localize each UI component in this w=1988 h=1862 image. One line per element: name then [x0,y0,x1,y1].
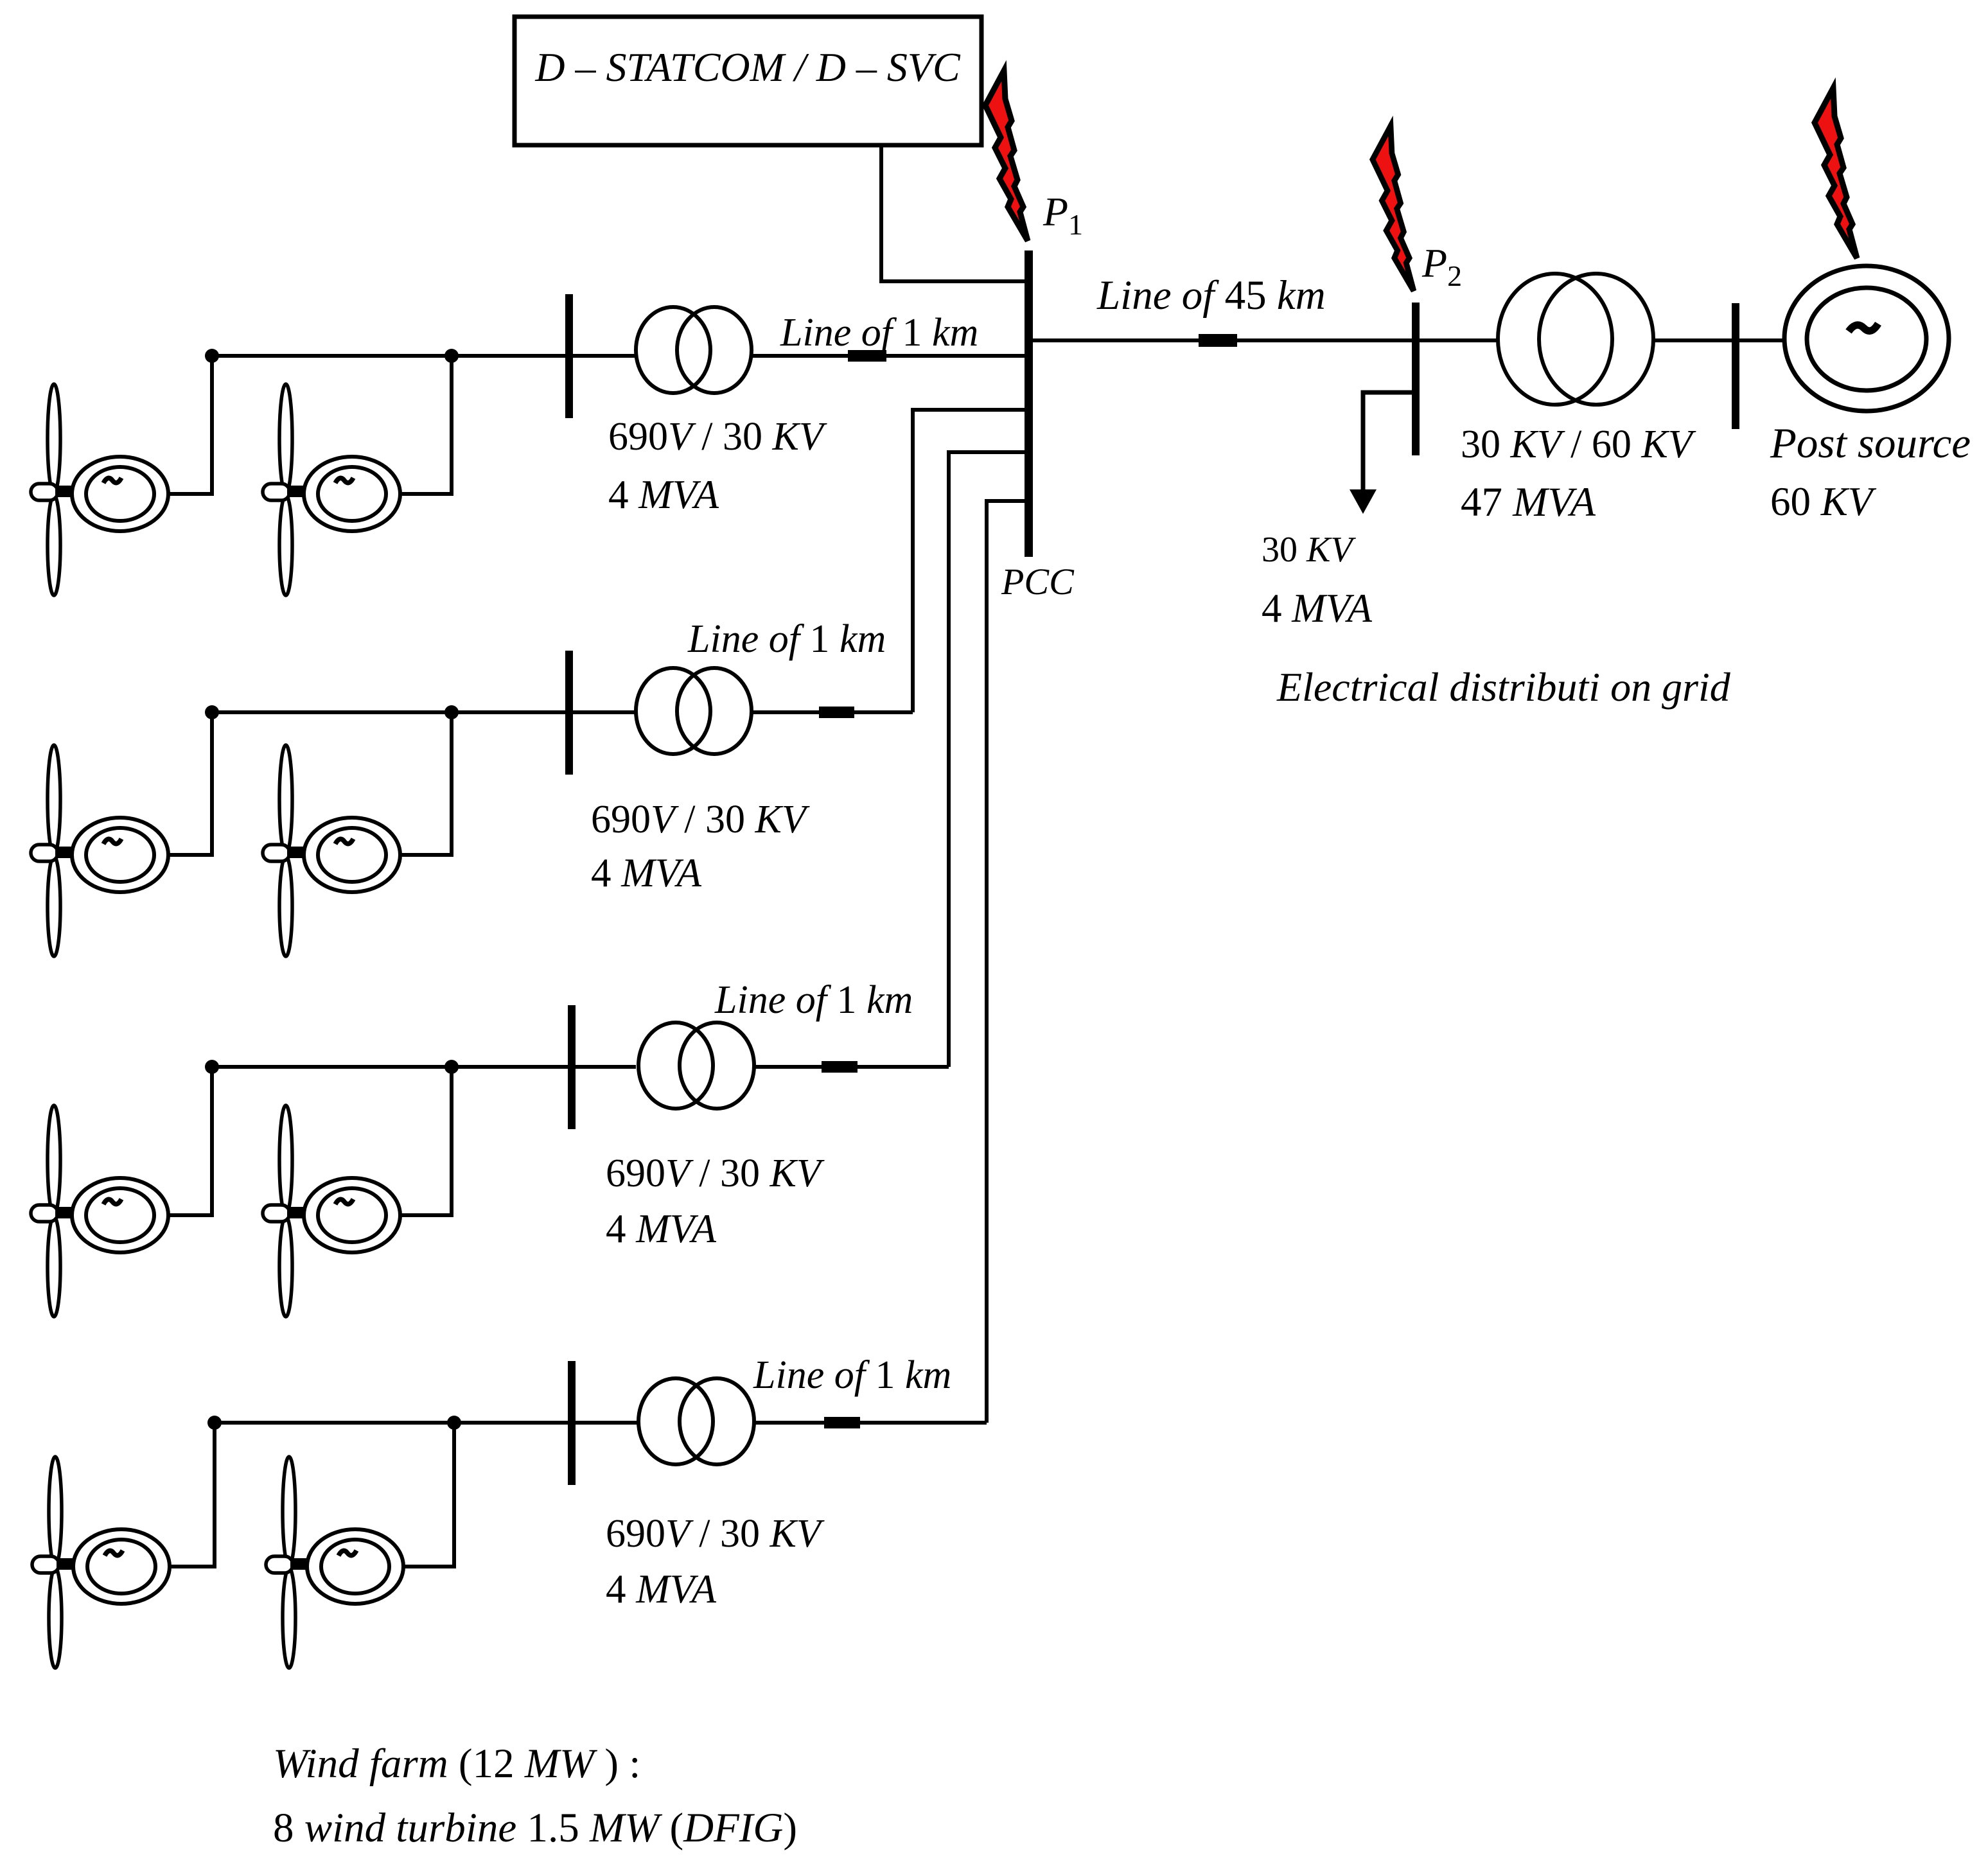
wire WT6 row3 to collector [400,1067,452,1215]
collector wire row4 [215,1421,638,1425]
wind turbine WT1 row1 [31,384,168,595]
D-STATCOM / D-SVC box [515,17,981,145]
wire row3 transformer to riser [754,1065,949,1069]
busbar row3 [568,1005,576,1129]
busbar row2 [565,651,573,775]
wire WT7 row4 to collector [170,1423,215,1567]
svg-text:PCC: PCC [1001,561,1075,602]
collector wire row3 [212,1065,636,1069]
transformer T3 690V/30KV [638,1023,754,1109]
svg-text:30 KV / 60 KV: 30 KV / 60 KV [1461,423,1696,466]
wind turbine WT6 row3 [263,1105,400,1317]
svg-text:Line of 1 km: Line of 1 km [780,311,978,355]
busbar row1 [565,294,573,418]
svg-text:Electrical distributi on grid: Electrical distributi on grid [1276,664,1731,710]
svg-text:Post source: Post source [1770,419,1971,467]
collector wire row2 [212,710,636,714]
transformer T1 690V/30KV [636,307,752,393]
riser wire row2 to PCC [913,410,1025,712]
line segment marker 45 km [1199,334,1237,347]
wind turbine WT4 row2 [263,745,400,956]
svg-text:D – STATCOM / D – SVC: D – STATCOM / D – SVC [534,44,961,90]
junction node row4 a [207,1416,222,1430]
collector wire row1 [212,354,636,358]
svg-text:60 KV: 60 KV [1770,479,1877,524]
wire row1 transformer to PCC [752,354,1025,358]
riser wire row3 to PCC [949,452,1025,1067]
junction node row3 a [205,1060,219,1074]
svg-text:Wind farm (12 MW ) :: Wind farm (12 MW ) : [273,1741,640,1787]
svg-text:4 MVA: 4 MVA [608,472,719,517]
wire from D-STATCOM box to PCC bus [881,145,1026,281]
junction node row2 b [444,705,459,719]
load branch wire at P2 [1363,392,1412,489]
junction node row1 a [205,349,219,363]
wire WT2 row1 to collector [400,356,452,494]
line segment marker row3 [822,1061,858,1073]
busbar row4 [568,1361,576,1485]
wire row4 transformer to riser [754,1421,987,1425]
svg-text:4 MVA: 4 MVA [606,1206,717,1251]
svg-text:4 MVA: 4 MVA [591,850,702,895]
svg-text:690V / 30 KV: 690V / 30 KV [608,415,827,459]
wire WT4 row2 to collector [400,712,452,855]
wind turbine WT5 row3 [31,1105,168,1317]
svg-text:30 KV: 30 KV [1262,530,1356,570]
svg-text:690V / 30 KV: 690V / 30 KV [606,1152,825,1195]
svg-text:8 wind turbine 1.5 MW (DFIG): 8 wind turbine 1.5 MW (DFIG) [273,1805,797,1851]
lightning bolt P1 [985,71,1028,241]
wind turbine WT2 row1 [263,384,400,595]
svg-text:4 MVA: 4 MVA [606,1567,717,1612]
wind turbine WT7 row4 [32,1457,170,1668]
wire P2 to grid transformer [1420,338,1499,342]
junction node row2 a [205,705,219,719]
junction node row4 b [447,1416,461,1430]
junction node row1 b [444,349,459,363]
wire WT1 row1 to collector [168,356,212,494]
post source generator G [1784,266,1949,411]
load arrow head [1350,489,1377,514]
lightning bolt P2 [1373,126,1414,291]
lightning bolt at post source [1815,88,1857,258]
svg-text:Line of 1 km: Line of 1 km [687,617,886,661]
wire WT8 row4 to collector [403,1423,454,1567]
busbar B3 [1732,303,1739,429]
wire Line of 45 km from PCC to P2 [1033,338,1412,342]
busbar P2 [1412,303,1420,455]
wire WT5 row3 to collector [168,1067,212,1215]
wind turbine WT8 row4 [266,1457,403,1668]
junction node row3 b [444,1060,459,1074]
svg-text:47 MVA: 47 MVA [1461,479,1596,525]
wire WT3 row2 to collector [168,712,212,855]
svg-text:4 MVA: 4 MVA [1262,586,1373,631]
svg-text:Line of 1 km: Line of 1 km [714,978,913,1022]
wire transformer T5 to busbar B3 [1653,338,1732,342]
transformer T5 30KV/60KV [1498,274,1653,405]
transformer T2 690V/30KV [636,668,752,754]
svg-text:Line of 45 km: Line of 45 km [1096,272,1326,319]
wind turbine WT3 row2 [31,745,168,956]
svg-text:690V / 30 KV: 690V / 30 KV [591,798,810,841]
wire busbar B3 to post source [1739,338,1784,342]
wire row2 transformer to riser [752,710,913,714]
line segment marker row1 [848,350,886,362]
riser wire row4 to PCC [987,501,1025,1423]
line segment marker row4 [824,1417,860,1428]
svg-text:Line of 1 km: Line of 1 km [753,1353,951,1397]
svg-text:690V / 30 KV: 690V / 30 KV [606,1512,825,1556]
line segment marker row2 [819,707,854,718]
busbar PCC (P1 bus) [1025,250,1033,557]
transformer T4 690V/30KV [638,1378,754,1464]
